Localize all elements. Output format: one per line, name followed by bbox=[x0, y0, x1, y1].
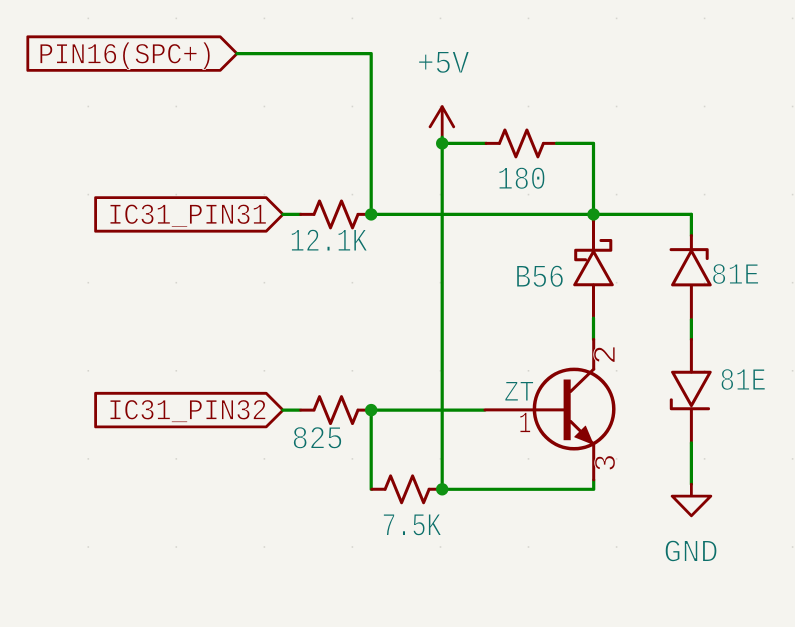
svg-text:81E: 81E bbox=[711, 260, 760, 294]
wire node to transistor base bbox=[371, 409, 485, 412]
diode 81E bottom (zener, pointing down) bbox=[671, 372, 710, 409]
ground GND symbol bbox=[672, 484, 711, 516]
diode 81E top pin bbox=[690, 236, 693, 250]
value label 81E top bbox=[711, 260, 760, 294]
junction +5V node bbox=[436, 137, 448, 149]
wire 81E to GND bbox=[690, 443, 693, 484]
diode 81E top pin bottom bbox=[690, 285, 693, 320]
wire node to 81E top cathode bbox=[690, 214, 693, 235]
wire +5V column vertical bbox=[441, 143, 444, 489]
wire node to B56 cathode bbox=[592, 214, 595, 221]
svg-text:IC31_PIN32: IC31_PIN32 bbox=[108, 395, 268, 429]
reference label ZT bbox=[504, 376, 535, 410]
wire node down to 7.5K bbox=[370, 410, 374, 489]
resistor 825 bbox=[301, 397, 371, 424]
pin number 1 bbox=[519, 409, 532, 443]
value label 180 bbox=[497, 162, 547, 199]
wire +5V stub bbox=[441, 137, 444, 143]
wire IC31_PIN31 to resistor bbox=[283, 213, 301, 216]
diode B56 pin top bbox=[592, 222, 595, 251]
power symbol +5V bbox=[430, 107, 454, 138]
junction 7.5K node bbox=[436, 483, 448, 495]
svg-text:825: 825 bbox=[292, 422, 344, 459]
diode 81E bottom pin bbox=[690, 409, 693, 443]
transistor ZT (NPN) bbox=[485, 340, 614, 480]
junction diode node bbox=[587, 208, 599, 220]
hierarchical label IC31_PIN31 bbox=[96, 198, 283, 233]
label GND bbox=[664, 535, 719, 571]
value label 81E bottom bbox=[720, 365, 767, 400]
svg-text:PIN16(SPC+): PIN16(SPC+) bbox=[38, 39, 215, 73]
hierarchical label PIN16(SPC+) bbox=[28, 37, 237, 73]
label +5V bbox=[417, 46, 470, 83]
svg-text:81E: 81E bbox=[720, 365, 767, 400]
diode 81E bottom pin top bbox=[690, 340, 693, 373]
resistor 7.5K bbox=[372, 476, 442, 503]
svg-text:1: 1 bbox=[519, 409, 532, 443]
wire node row IC31_PIN31 to diodes bbox=[371, 213, 691, 216]
svg-text:ZT: ZT bbox=[504, 376, 535, 410]
wire B56 anode to collector bbox=[592, 318, 595, 339]
value label 825 bbox=[292, 422, 344, 459]
hierarchical label IC31_PIN32 bbox=[96, 393, 283, 428]
svg-text:2: 2 bbox=[590, 345, 625, 365]
svg-text:180: 180 bbox=[497, 162, 547, 199]
diode B56 pin bottom bbox=[592, 285, 595, 318]
pin number 3 bbox=[591, 454, 625, 472]
wire 7.5K node to emitter bbox=[442, 480, 594, 490]
svg-text:+5V: +5V bbox=[417, 46, 470, 83]
diode 81E top (zener) bbox=[671, 250, 710, 285]
value label B56 bbox=[515, 260, 566, 297]
value label 7.5K bbox=[382, 509, 442, 546]
wire +5V to resistor 180 bbox=[442, 142, 486, 145]
resistor 12.1K bbox=[301, 201, 371, 228]
svg-text:IC31_PIN31: IC31_PIN31 bbox=[108, 199, 268, 233]
wire between 81E diodes bbox=[690, 320, 693, 340]
pin number 2 bbox=[590, 345, 625, 365]
diode B56 (zener) bbox=[575, 241, 613, 285]
svg-text:7.5K: 7.5K bbox=[382, 509, 442, 546]
wire PIN16 horizontal+vertical to node bbox=[237, 54, 371, 215]
svg-text:B56: B56 bbox=[515, 260, 566, 297]
wire 180 to node bbox=[557, 143, 594, 214]
svg-text:12.1K: 12.1K bbox=[290, 224, 369, 261]
value label 12.1K bbox=[290, 224, 369, 261]
svg-text:GND: GND bbox=[664, 535, 719, 571]
svg-text:3: 3 bbox=[591, 454, 625, 472]
junction IC31_PIN31 node bbox=[365, 208, 377, 220]
wire IC31_PIN32 to resistor bbox=[283, 409, 301, 412]
junction IC31_PIN32 node bbox=[365, 404, 377, 416]
resistor 180 bbox=[486, 130, 556, 157]
